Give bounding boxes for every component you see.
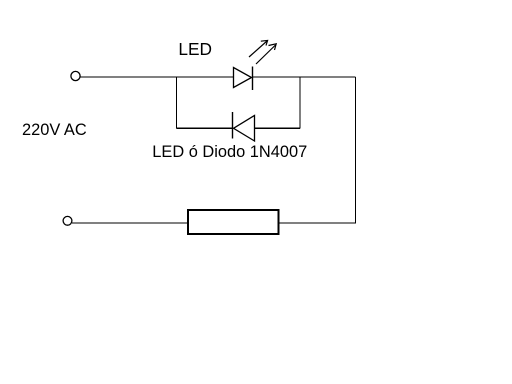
- wire bottom: resistor to right corner: [279, 222, 356, 224]
- wire top: LED cathode to right corner: [253, 76, 356, 78]
- wire top: terminal to LED anode: [81, 76, 234, 78]
- label LED: [178, 39, 212, 60]
- wire bottom: terminal to resistor: [72, 222, 188, 224]
- label LED ó Diodo 1N4007: [152, 143, 307, 162]
- terminal T2 (bottom AC input): [63, 216, 72, 225]
- terminal T1 (top AC input): [71, 71, 80, 80]
- wire bottom branch right: [255, 127, 301, 129]
- diode D2 (1N4007, anti-parallel): [233, 112, 255, 141]
- node A (left junction): [176, 77, 178, 128]
- wire bottom branch left: [177, 127, 233, 129]
- resistor R1: [188, 210, 279, 234]
- wire right vertical: [355, 77, 357, 224]
- LED D1: [234, 40, 277, 90]
- node B (right junction): [299, 77, 301, 128]
- label 220V AC: [22, 121, 87, 140]
